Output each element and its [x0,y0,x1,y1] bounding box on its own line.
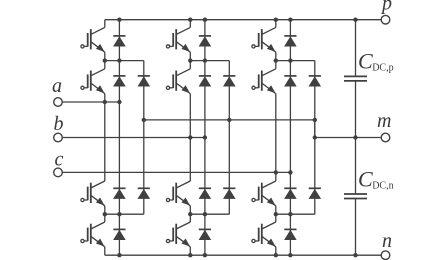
svg-text:a: a [52,75,62,97]
svg-text:p: p [380,0,392,15]
svg-text:b: b [54,113,64,135]
svg-text:n: n [382,230,392,252]
svg-text:m: m [377,110,391,132]
svg-text:c: c [55,149,64,171]
